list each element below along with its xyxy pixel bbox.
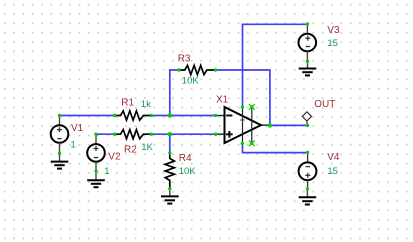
terminal dot V4 top: [306, 151, 309, 154]
wire op-amp negative supply pin to V4: [243, 144, 308, 153]
svg-text:10K: 10K: [182, 75, 200, 86]
terminal dot R3 right: [214, 68, 217, 71]
label R3: [178, 54, 191, 65]
terminal dot V1 bottom: [58, 152, 61, 155]
label R1: [121, 97, 134, 108]
svg-text:V4: V4: [327, 152, 340, 163]
voltage source V4: [299, 152, 317, 189]
OUT connector diamond: [302, 112, 311, 126]
wire V3 to op-amp positive supply pin: [243, 24, 308, 107]
terminal dot R2 left: [113, 133, 116, 136]
resistor R1: [115, 111, 152, 120]
value 1K of R2: [141, 142, 153, 153]
value 15 of V4: [327, 166, 338, 177]
terminal dot V4 bottom: [306, 187, 309, 190]
wire node A up to R3 left: [170, 70, 179, 116]
terminal dot R4 top: [168, 151, 171, 154]
op-amp X1: [216, 107, 270, 144]
wire R2 to op-amp non-inverting input (net B): [151, 133, 215, 135]
wire R1 to op-amp inverting input (net A): [151, 115, 215, 117]
label R4: [179, 153, 192, 164]
svg-text:10K: 10K: [179, 166, 197, 177]
svg-text:1k: 1k: [141, 99, 151, 110]
svg-text:X1: X1: [216, 94, 229, 105]
wire node B down to R4: [169, 134, 171, 153]
svg-text:OUT: OUT: [314, 99, 335, 110]
value 1k of R1: [141, 99, 151, 110]
label V1: [71, 123, 84, 134]
terminal dot X1 non-inverting input: [214, 133, 217, 136]
svg-text:V2: V2: [108, 151, 121, 162]
wire output node to OUT connector: [270, 124, 308, 126]
svg-text:V3: V3: [327, 25, 340, 36]
label X1: [216, 94, 229, 105]
no-connect pin marker top of X1: [249, 104, 255, 110]
terminal dot X1 negative supply: [241, 142, 244, 145]
voltage source V2: [87, 134, 105, 171]
terminal dot R1 right: [150, 114, 153, 117]
label V3: [327, 25, 340, 36]
ground of V1: [51, 154, 69, 169]
terminal dot R1 left: [113, 114, 116, 117]
voltage source V3: [299, 24, 317, 61]
svg-text:1K: 1K: [141, 142, 153, 153]
svg-text:V1: V1: [71, 123, 84, 134]
junction node A: [168, 113, 172, 117]
svg-text:15: 15: [327, 166, 338, 177]
svg-text:15: 15: [327, 38, 338, 49]
terminal dot V2 bottom: [94, 169, 97, 172]
value 1 of V2: [104, 166, 109, 177]
ground of V4: [299, 189, 317, 205]
label V4: [327, 152, 340, 163]
svg-text:1: 1: [71, 139, 76, 150]
junction output node: [268, 123, 272, 127]
terminal dot V1 top: [58, 114, 61, 117]
terminal dot X1 inverting input: [214, 114, 217, 117]
svg-text:1: 1: [104, 166, 109, 177]
junction node B: [168, 132, 172, 136]
wire R3 right to output node: [216, 70, 270, 125]
ground of V3: [299, 61, 317, 75]
terminal dot V3 top: [306, 22, 309, 25]
terminal dot V2 top: [94, 133, 97, 136]
terminal dot R4 bottom: [168, 187, 171, 190]
terminal dot R2 right: [150, 133, 153, 136]
ground of R4: [161, 189, 179, 204]
terminal dot R3 left: [177, 68, 180, 71]
wire V1 to R1 (net A): [60, 115, 115, 117]
value 10K of R3: [182, 75, 200, 86]
label R2: [124, 144, 137, 155]
no-connect pin marker bottom of X1: [249, 140, 255, 146]
resistor R4: [165, 153, 174, 189]
svg-text:R2: R2: [124, 144, 137, 155]
value 10K of R4: [179, 166, 197, 177]
value 1 of V1: [71, 139, 76, 150]
ground of V2: [87, 171, 105, 187]
terminal dot OUT: [306, 124, 309, 127]
svg-text:R4: R4: [179, 153, 192, 164]
voltage source V1: [51, 116, 69, 154]
resistor R2: [115, 130, 152, 139]
svg-text:R3: R3: [178, 54, 191, 65]
resistor R3: [179, 65, 216, 74]
wire V2 to R2 (net B): [96, 133, 115, 135]
terminal dot V3 bottom: [306, 60, 309, 63]
label OUT: [314, 99, 335, 110]
svg-text:R1: R1: [121, 97, 134, 108]
label V2: [108, 151, 121, 162]
value 15 of V3: [327, 38, 338, 49]
terminal dot X1 positive supply: [241, 105, 244, 108]
